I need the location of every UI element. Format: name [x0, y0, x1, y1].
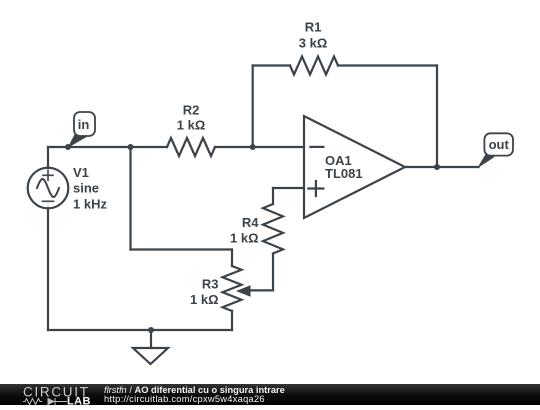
wire branch horizontal	[131, 248, 233, 250]
svg-text:out: out	[489, 137, 510, 152]
wire feedback vertical left	[252, 66, 254, 148]
potentiometer R3 body	[223, 266, 242, 311]
svg-text:LAB: LAB	[67, 395, 91, 406]
wire R4 to wiper	[248, 289, 273, 291]
svg-text:1 kΩ: 1 kΩ	[190, 292, 219, 307]
svg-text:R3: R3	[202, 277, 219, 292]
wire ground stub	[150, 330, 152, 348]
CircuitLab logo	[22, 385, 102, 406]
svg-text:sine: sine	[73, 181, 99, 196]
svg-text:in: in	[78, 117, 90, 132]
svg-text:3 kΩ: 3 kΩ	[299, 36, 328, 51]
svg-text:1 kΩ: 1 kΩ	[177, 118, 206, 133]
wire feedback top left	[253, 64, 290, 66]
node out tag pointer	[477, 154, 495, 169]
svg-text:TL081: TL081	[325, 166, 363, 181]
wire output	[405, 166, 479, 168]
wire branch vertical	[129, 147, 131, 250]
V1 sine mark	[37, 179, 59, 197]
wire plus input	[273, 187, 304, 189]
svg-text:1 kHz: 1 kHz	[73, 197, 107, 212]
wire R4 top lead	[272, 188, 274, 204]
footer caption text	[104, 386, 285, 405]
svg-text:1 kΩ: 1 kΩ	[230, 231, 259, 246]
node in tag box	[74, 112, 95, 136]
footer bar	[0, 384, 540, 405]
wire input left segment	[48, 146, 167, 148]
wire R3 bottom lead	[231, 311, 233, 330]
junction dot ground	[148, 327, 154, 333]
V1 minus mark	[43, 200, 54, 202]
op-amp minus input mark	[310, 146, 323, 148]
wire R3 top lead	[231, 250, 233, 267]
wire V1 bottom lead	[47, 208, 49, 330]
svg-text:R1: R1	[305, 20, 322, 35]
wire feedback top right	[338, 64, 437, 66]
junction dot branch	[128, 144, 134, 150]
resistor R2	[167, 138, 215, 156]
junction dot output	[434, 164, 440, 170]
resistor R4	[263, 204, 283, 253]
wire V1 top lead	[47, 147, 49, 168]
wire feedback vertical right	[436, 66, 438, 168]
node in tag pointer	[68, 134, 88, 149]
potentiometer R3 wiper arrow	[236, 285, 251, 296]
wire R4 bottom lead	[272, 254, 274, 291]
svg-text:R4: R4	[242, 215, 259, 230]
svg-text:R2: R2	[183, 102, 200, 117]
resistor R1	[290, 57, 338, 75]
wire R2 to op-amp minus input	[215, 146, 304, 148]
junction dot in tag	[65, 144, 71, 150]
wire bottom	[48, 329, 232, 331]
voltage source V1 circle	[28, 168, 69, 209]
op-amp plus input mark	[308, 181, 323, 196]
junction dot feedback tap	[250, 144, 256, 150]
svg-text:V1: V1	[73, 165, 89, 180]
node out tag box	[484, 133, 513, 155]
op-amp OA1 triangle	[304, 116, 405, 218]
ground symbol triangle	[133, 348, 168, 364]
V1 plus mark	[43, 170, 53, 180]
